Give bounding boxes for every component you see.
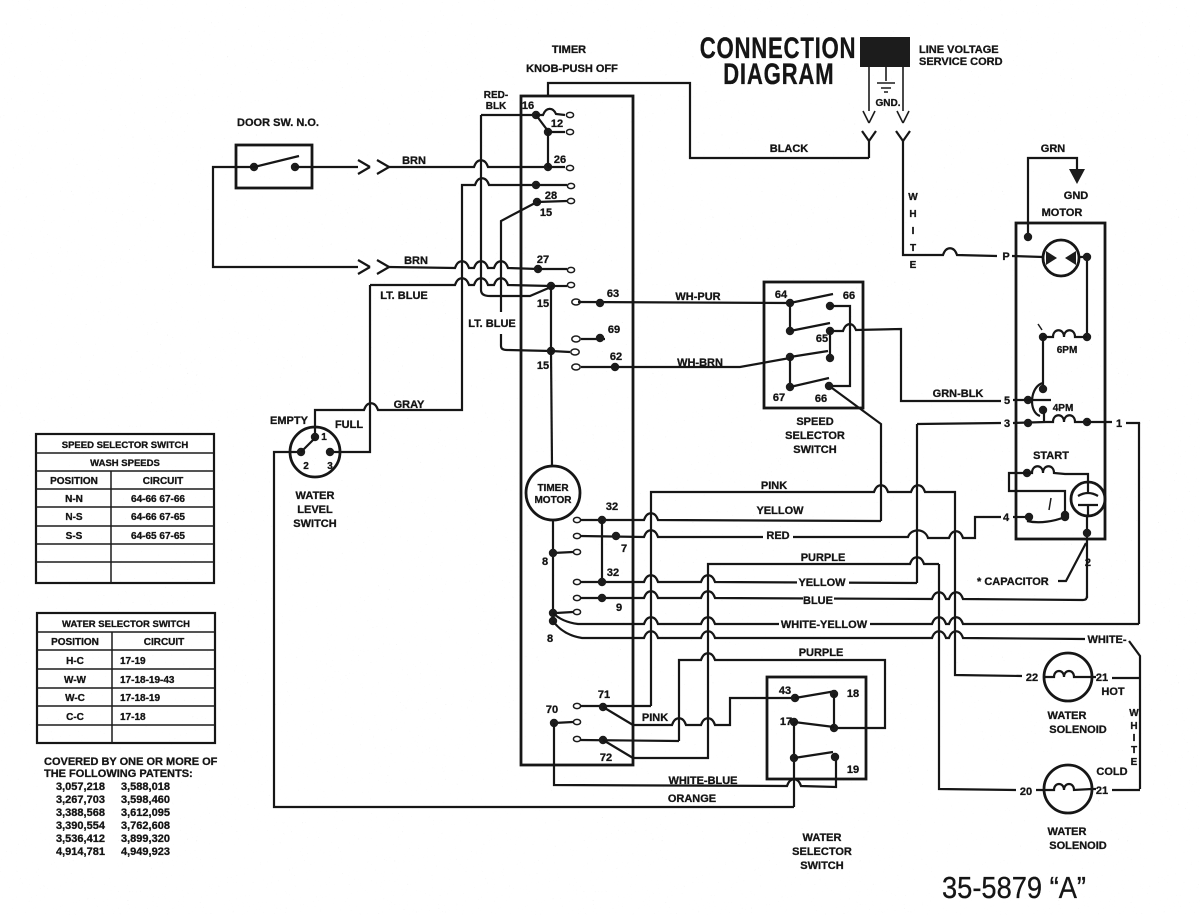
wire terminal 5 xyxy=(1013,399,1051,401)
svg-text:WH-BRN: WH-BRN xyxy=(677,357,723,369)
svg-text:63: 63 xyxy=(607,288,619,300)
svg-text:12: 12 xyxy=(551,118,563,130)
svg-text:70: 70 xyxy=(546,704,558,716)
svg-text:3,762,608: 3,762,608 xyxy=(121,820,170,832)
svg-text:69: 69 xyxy=(608,324,620,336)
svg-text:3,057,218: 3,057,218 xyxy=(56,781,105,793)
wire from door switch right to connector xyxy=(295,166,358,168)
svg-text:4: 4 xyxy=(1003,512,1010,524)
terminal 4 blade xyxy=(1027,517,1065,522)
svg-text:BLK: BLK xyxy=(486,101,507,112)
svg-text:64-66 67-66: 64-66 67-66 xyxy=(131,494,185,505)
svg-text:LT. BLUE: LT. BLUE xyxy=(380,290,427,302)
timer contact 8a xyxy=(573,549,580,554)
wire water level 3 riser xyxy=(330,285,370,452)
wire 66b diagonal down to yellow1 xyxy=(832,388,881,521)
svg-text:GND.: GND. xyxy=(876,98,901,109)
wire 32a to 32b vertical xyxy=(601,520,603,582)
svg-text:SWITCH: SWITCH xyxy=(293,518,336,530)
svg-text:32: 32 xyxy=(606,501,618,513)
switch arc blade xyxy=(1032,383,1043,416)
wire BRN to timer 26 xyxy=(389,160,548,167)
svg-text:WASH SPEEDS: WASH SPEEDS xyxy=(90,458,160,469)
water selector switch box xyxy=(767,677,866,779)
svg-text:62: 62 xyxy=(610,351,622,363)
svg-text:17-18: 17-18 xyxy=(120,712,146,723)
wire 64c to 67 xyxy=(789,357,791,387)
speed selector table xyxy=(36,434,214,583)
blade 71 to pink xyxy=(603,707,633,725)
svg-text:LINE VOLTAGE: LINE VOLTAGE xyxy=(919,44,999,56)
6PM coil xyxy=(1039,333,1047,341)
motor top junction xyxy=(1024,233,1032,241)
svg-text:SWITCH: SWITCH xyxy=(793,444,836,456)
svg-text:SWITCH: SWITCH xyxy=(800,860,843,872)
timer contact 72 xyxy=(573,736,580,741)
blade 72 xyxy=(603,740,633,758)
speed selector switch box xyxy=(764,282,863,408)
label RED xyxy=(763,530,793,540)
svg-text:LEVEL: LEVEL xyxy=(297,504,333,516)
svg-text:15: 15 xyxy=(537,360,549,372)
timer contact 69 xyxy=(572,336,580,342)
timer contact 32a YELLOW xyxy=(573,517,580,522)
svg-text:GND: GND xyxy=(1064,190,1089,202)
svg-text:T: T xyxy=(1131,745,1137,756)
hot water solenoid circle xyxy=(1044,653,1092,701)
wire terminal 4 xyxy=(1013,516,1029,518)
svg-text:1: 1 xyxy=(1116,418,1122,430)
svg-text:RED: RED xyxy=(766,530,789,542)
svg-text:66: 66 xyxy=(815,393,827,405)
blade 64b-65 xyxy=(790,323,830,331)
svg-text:3,588,018: 3,588,018 xyxy=(121,781,170,793)
svg-text:1: 1 xyxy=(321,432,327,443)
svg-text:19: 19 xyxy=(847,764,859,776)
label YELLOW2 xyxy=(797,575,849,587)
blade 64-66 xyxy=(790,294,833,303)
water level switch blade xyxy=(301,438,315,452)
svg-text:35-5879 “A”: 35-5879 “A” xyxy=(942,871,1086,905)
cord left lead with arrowhead xyxy=(863,67,875,123)
blade 17 xyxy=(794,722,834,727)
svg-text:17-18-19: 17-18-19 xyxy=(120,693,160,704)
wire PURPLE upper chain from 72 blade to motor 3 column xyxy=(633,557,939,758)
timer contact 63 WH-PUR xyxy=(572,299,580,305)
svg-text:26: 26 xyxy=(554,154,566,166)
cord right lead with arrowhead xyxy=(897,67,909,123)
timer contact 32b YELLOW xyxy=(573,579,580,584)
svg-text:WHITE-BLUE: WHITE-BLUE xyxy=(668,775,737,787)
svg-text:65: 65 xyxy=(816,333,828,345)
svg-text:BRN: BRN xyxy=(402,155,426,167)
svg-text:E: E xyxy=(910,260,917,271)
motor box xyxy=(1016,223,1105,539)
svg-text:4,914,781: 4,914,781 xyxy=(56,846,105,858)
svg-text:GRAY: GRAY xyxy=(394,399,425,411)
svg-text:CIRCUIT: CIRCUIT xyxy=(143,476,184,487)
svg-text:EMPTY: EMPTY xyxy=(270,415,309,427)
wire WHITE-YELLOW from 8b to motor 1 xyxy=(553,613,1139,624)
svg-text:18: 18 xyxy=(847,688,859,700)
svg-text:5: 5 xyxy=(1004,395,1010,407)
centrifugal switch contacts xyxy=(1039,385,1047,393)
svg-text:71: 71 xyxy=(598,689,610,701)
svg-text:POSITION: POSITION xyxy=(50,476,98,487)
wire 15b to 15c xyxy=(550,286,552,351)
door switch contacts and blade xyxy=(250,163,258,171)
wire PINK lower from 71 blade to selector 43 xyxy=(634,698,795,725)
svg-text:WH-PUR: WH-PUR xyxy=(675,291,720,303)
svg-text:27: 27 xyxy=(537,254,549,266)
svg-text:43: 43 xyxy=(779,685,791,697)
timer motor circle xyxy=(526,466,580,520)
wire WHITE row from 8b to solenoids xyxy=(553,621,1085,639)
speed selector contact 65b xyxy=(826,354,834,362)
wire PINK upper from 71 column to solenoid 22 xyxy=(651,485,1022,706)
svg-text:THE FOLLOWING PATENTS:: THE FOLLOWING PATENTS: xyxy=(44,768,193,780)
timer contact 70 xyxy=(573,719,580,724)
capacitor circle xyxy=(1071,482,1105,516)
svg-text:WATER: WATER xyxy=(296,490,335,502)
earth ground symbol xyxy=(877,83,895,92)
label WHITE-YELLOW xyxy=(779,618,870,629)
svg-text:E: E xyxy=(1131,757,1138,768)
wire WHITE-BLUE from 70 to selector 19 xyxy=(554,723,836,787)
speed selector contact 64b xyxy=(786,327,794,335)
svg-text:GRN-BLK: GRN-BLK xyxy=(933,388,984,400)
svg-text:SPEED: SPEED xyxy=(796,416,833,428)
door switch box xyxy=(236,145,312,188)
wire 15c down to timer motor xyxy=(551,351,552,466)
svg-text:21: 21 xyxy=(1096,672,1108,684)
svg-text:BLUE: BLUE xyxy=(803,595,833,607)
svg-text:8: 8 xyxy=(547,633,553,645)
wire 65 to 65b xyxy=(829,331,831,358)
wire BRN to timer 27 xyxy=(389,261,538,269)
svg-text:TIMER: TIMER xyxy=(537,483,569,494)
timer contact 15b xyxy=(547,282,555,290)
svg-text:SOLENOID: SOLENOID xyxy=(1049,840,1107,852)
svg-text:22: 22 xyxy=(1026,672,1038,684)
speed selector contact 64c xyxy=(786,353,794,361)
selector contact 43 xyxy=(791,694,799,702)
label BLUE xyxy=(803,594,834,605)
svg-text:17: 17 xyxy=(780,716,792,728)
wire 65 to GRN-BLK to motor 5 xyxy=(830,324,1001,401)
svg-text:C-C: C-C xyxy=(66,712,84,723)
selector contact 17 xyxy=(790,718,798,726)
wire 15a diagonal chain to 15c xyxy=(501,202,551,351)
timer contact 15a xyxy=(533,198,541,206)
svg-text:GRN: GRN xyxy=(1041,143,1066,155)
selector contact 19 xyxy=(831,753,839,761)
wire terminal 3 column xyxy=(917,423,1001,583)
cord ground lead xyxy=(885,67,887,81)
svg-text:7: 7 xyxy=(621,543,627,555)
svg-text:WHITE-: WHITE- xyxy=(1087,634,1126,646)
svg-text:W-W: W-W xyxy=(64,675,87,686)
svg-text:H: H xyxy=(1130,721,1137,732)
wire from door switch left down to lower connector xyxy=(213,167,358,267)
blade lower to 19 xyxy=(794,752,833,758)
timer contact 71 xyxy=(573,703,580,708)
speed selector contact 65 xyxy=(826,327,834,335)
svg-text:8: 8 xyxy=(542,556,548,568)
svg-text:32: 32 xyxy=(607,567,619,579)
svg-text:4PM: 4PM xyxy=(1053,403,1074,414)
svg-text:64-65 67-65: 64-65 67-65 xyxy=(131,531,185,542)
svg-text:3,388,568: 3,388,568 xyxy=(56,807,105,819)
svg-text:9: 9 xyxy=(616,602,622,614)
svg-text:COLD: COLD xyxy=(1096,766,1127,778)
svg-text:H: H xyxy=(909,209,916,220)
wire GRN from motor to gnd arrow xyxy=(1028,158,1077,237)
wire 17 down to orange xyxy=(793,722,795,807)
connector chevrons BRN bottom xyxy=(358,260,389,274)
svg-text:64: 64 xyxy=(775,289,788,301)
svg-text:BLACK: BLACK xyxy=(770,143,809,155)
svg-text:N-N: N-N xyxy=(65,494,83,505)
svg-text:SOLENOID: SOLENOID xyxy=(1049,724,1107,736)
svg-text:ORANGE: ORANGE xyxy=(668,793,716,805)
svg-text:WATER SELECTOR SWITCH: WATER SELECTOR SWITCH xyxy=(62,619,190,630)
start winding left jog xyxy=(1009,473,1065,515)
svg-text:I: I xyxy=(1133,733,1136,744)
connector chevrons BRN top xyxy=(358,160,389,174)
svg-text:3: 3 xyxy=(327,461,333,472)
svg-text:SPEED SELECTOR SWITCH: SPEED SELECTOR SWITCH xyxy=(62,440,189,451)
svg-text:WATER: WATER xyxy=(1048,826,1087,838)
timer contact 27 xyxy=(534,265,542,273)
svg-text:3,536,412: 3,536,412 xyxy=(56,833,105,845)
title CONNECTION DIAGRAM xyxy=(700,31,857,91)
svg-text:17-18-19-43: 17-18-19-43 xyxy=(120,675,175,686)
timer contact 16 xyxy=(532,111,540,119)
svg-text:N-S: N-S xyxy=(65,512,83,523)
timer contact 9 BLUE xyxy=(573,595,580,600)
svg-text:PURPLE: PURPLE xyxy=(801,552,846,564)
svg-text:W-C: W-C xyxy=(65,693,85,704)
svg-text:4,949,923: 4,949,923 xyxy=(121,846,170,858)
motor rotor circle xyxy=(1043,240,1079,276)
connector Y white side xyxy=(896,131,910,141)
start coil xyxy=(1023,469,1031,477)
svg-text:PINK: PINK xyxy=(642,712,668,724)
svg-text:FULL: FULL xyxy=(335,419,363,431)
svg-text:H-C: H-C xyxy=(66,656,84,667)
svg-text:WATER: WATER xyxy=(1048,710,1087,722)
svg-text:66: 66 xyxy=(843,290,855,302)
rotor arrows xyxy=(1046,251,1057,265)
svg-text:DOOR SW. N.O.: DOOR SW. N.O. xyxy=(237,117,319,129)
selector contact 18 xyxy=(830,690,838,698)
svg-text:COVERED BY ONE OR MORE OF: COVERED BY ONE OR MORE OF xyxy=(44,756,218,768)
timer contact 12 xyxy=(544,128,552,136)
wire terminal 1 down column xyxy=(1138,423,1140,624)
svg-text:21: 21 xyxy=(1096,785,1108,797)
wire WHITE down to motor P xyxy=(903,141,997,256)
gnd arrow triangle xyxy=(1069,169,1085,184)
water level switch circle xyxy=(290,427,340,477)
svg-text:KNOB-PUSH OFF: KNOB-PUSH OFF xyxy=(526,63,618,75)
svg-text:P: P xyxy=(1002,251,1009,263)
wire 28 to GRAY to water level 1 xyxy=(315,178,536,437)
svg-text:PINK: PINK xyxy=(761,480,787,492)
svg-text:6PM: 6PM xyxy=(1057,345,1078,356)
connector Y black side xyxy=(862,131,876,158)
svg-text:17-19: 17-19 xyxy=(120,656,146,667)
svg-text:POSITION: POSITION xyxy=(51,637,99,648)
speed selector contact 66 top xyxy=(826,302,834,310)
svg-text:3,267,703: 3,267,703 xyxy=(56,794,105,806)
svg-text:BRN: BRN xyxy=(404,255,428,267)
timer contact 7 RED xyxy=(573,533,580,538)
svg-text:SELECTOR: SELECTOR xyxy=(785,430,845,442)
wire 64 to 64b xyxy=(789,303,791,331)
svg-text:YELLOW: YELLOW xyxy=(756,505,804,517)
wire terminal 1 xyxy=(1087,422,1139,424)
svg-text:T: T xyxy=(910,243,916,254)
svg-text:WHITE-YELLOW: WHITE-YELLOW xyxy=(781,619,868,631)
wire rotor to right column xyxy=(1079,257,1087,337)
timer contact 15c xyxy=(547,347,555,355)
speed selector contact 67 xyxy=(786,383,794,391)
svg-text:YELLOW: YELLOW xyxy=(798,577,846,589)
svg-text:S-S: S-S xyxy=(66,531,83,542)
svg-text:W: W xyxy=(1129,708,1139,719)
wire WHITE diagonal to solenoid 21 column xyxy=(1129,641,1140,789)
line voltage service cord xyxy=(860,37,910,67)
svg-text:MOTOR: MOTOR xyxy=(1042,207,1083,219)
speed selector contact 66 bottom xyxy=(825,382,833,390)
speed selector contact 64 xyxy=(786,299,794,307)
wire capacitor bottom to blue xyxy=(1086,516,1088,598)
svg-text:TIMER: TIMER xyxy=(552,44,586,56)
blade 43-18 xyxy=(795,691,836,698)
wire 6PM left down to switch xyxy=(1042,337,1044,389)
svg-text:SELECTOR: SELECTOR xyxy=(792,846,852,858)
patents note xyxy=(44,756,218,858)
svg-text:3,390,554: 3,390,554 xyxy=(56,820,106,832)
svg-text:16: 16 xyxy=(522,100,534,112)
svg-text:HOT: HOT xyxy=(1101,686,1125,698)
timer box xyxy=(521,96,633,765)
svg-text:LT. BLUE: LT. BLUE xyxy=(468,318,515,330)
svg-text:3: 3 xyxy=(1004,418,1010,430)
svg-text:2: 2 xyxy=(1085,557,1091,569)
svg-text:20: 20 xyxy=(1020,786,1032,798)
timer contact 28 xyxy=(532,181,540,189)
part number xyxy=(942,871,1086,905)
svg-text:2: 2 xyxy=(303,461,309,472)
svg-text:3,899,320: 3,899,320 xyxy=(121,833,170,845)
svg-text:I: I xyxy=(912,226,915,237)
svg-text:15: 15 xyxy=(540,207,552,219)
svg-text:MOTOR: MOTOR xyxy=(534,495,572,506)
cold water solenoid circle xyxy=(1044,765,1092,813)
wire PURPLE lower from 72 to selector mid xyxy=(679,653,885,741)
svg-text:67: 67 xyxy=(773,392,785,404)
wire 66 bracket xyxy=(829,306,850,386)
svg-text:15: 15 xyxy=(537,298,549,310)
svg-text:W: W xyxy=(908,192,918,203)
svg-text:72: 72 xyxy=(600,752,612,764)
wire 18 down to mid xyxy=(833,694,835,728)
blade 67-66 xyxy=(790,378,829,387)
svg-text:WATER: WATER xyxy=(803,832,842,844)
svg-text:DIAGRAM: DIAGRAM xyxy=(723,57,834,91)
wire RED-BLK vertical 16 to 15b xyxy=(481,115,551,296)
wire purple1 column down to cold solenoid 20 xyxy=(939,564,1044,790)
svg-text:3,598,460: 3,598,460 xyxy=(121,794,170,806)
svg-text:START: START xyxy=(1033,450,1069,462)
timer contact 26 xyxy=(544,163,552,171)
svg-text:28: 28 xyxy=(545,190,557,202)
svg-text:RED-: RED- xyxy=(484,90,508,101)
svg-text:3,612,095: 3,612,095 xyxy=(121,807,170,819)
svg-text:* CAPACITOR: * CAPACITOR xyxy=(977,576,1049,588)
svg-text:PURPLE: PURPLE xyxy=(799,647,844,659)
wire ORANGE bottom xyxy=(274,452,794,807)
wire LT. BLUE to timer 15b xyxy=(370,278,551,286)
svg-text:64-66 67-65: 64-66 67-65 xyxy=(131,512,185,523)
timer contact 8b xyxy=(573,609,580,614)
timer contact 62 WH-BRN xyxy=(572,364,580,370)
svg-text:CIRCUIT: CIRCUIT xyxy=(144,637,185,648)
svg-text:SERVICE CORD: SERVICE CORD xyxy=(919,56,1003,68)
blade 64c-65b xyxy=(790,351,828,357)
wire timer motor down to 8 contacts xyxy=(552,520,554,623)
wire BLACK from timer top to cord xyxy=(548,83,869,158)
water selector table xyxy=(37,613,215,743)
wire terminal 3 into 4PM xyxy=(1013,422,1046,423)
